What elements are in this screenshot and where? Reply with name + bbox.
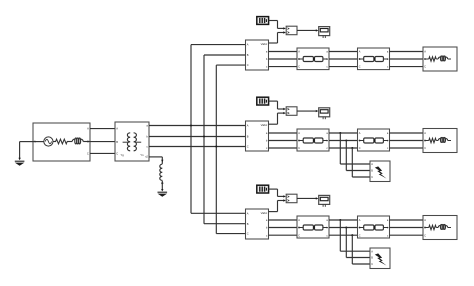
junction fault tap a feeder2 bbox=[339, 132, 341, 134]
wire line2a to line2b a bbox=[329, 132, 358, 134]
ground G1 bbox=[15, 161, 25, 166]
wire M1 b to line1a bbox=[269, 58, 298, 60]
wire M2 b to line2a bbox=[269, 140, 298, 142]
grounding reactor L1 bbox=[160, 164, 163, 180]
svg-text:C: C bbox=[424, 147, 426, 150]
svg-text:C: C bbox=[371, 263, 373, 266]
svg-text:C: C bbox=[424, 66, 426, 69]
three-phase transformer T1 (Yg-Yn) bbox=[115, 122, 149, 161]
wire M1 Vabc to sum S1 bbox=[269, 31, 286, 43]
junction bus c bbox=[215, 145, 217, 147]
wire source A to transformer A bbox=[90, 128, 115, 130]
wire fault tap b feeder3 bbox=[346, 228, 370, 258]
svg-text:Vabc: Vabc bbox=[261, 211, 268, 215]
distributed line block Line3a bbox=[297, 216, 329, 238]
junction reactor bottom bbox=[161, 182, 163, 184]
junction bus a bbox=[190, 124, 192, 126]
wire bus phase b vertical riser bbox=[203, 55, 205, 224]
wire M2 a to line2a bbox=[269, 132, 298, 134]
svg-text:A: A bbox=[116, 127, 118, 131]
sum block S3 bbox=[286, 194, 297, 203]
three-phase RLC load Load3 bbox=[423, 216, 457, 240]
wire line3b to load3 b bbox=[390, 227, 424, 229]
scope SC1 bbox=[319, 27, 330, 38]
junction bus b bbox=[203, 135, 205, 137]
wire source C to transformer C bbox=[90, 152, 115, 154]
wire line3a to line3b c bbox=[329, 234, 358, 236]
wire M3 a to line3a bbox=[269, 219, 298, 221]
distributed line block Line2b bbox=[358, 129, 390, 151]
junction fault tap c feeder3 bbox=[351, 234, 353, 236]
svg-text:A: A bbox=[247, 43, 249, 47]
sum block S2 bbox=[286, 107, 297, 116]
svg-text:B: B bbox=[247, 222, 249, 226]
wire sum S2 to scope SC2 bbox=[297, 110, 318, 112]
svg-text:C: C bbox=[424, 234, 426, 237]
svg-text:C: C bbox=[247, 145, 249, 149]
wire bus to feeder1 A bbox=[191, 44, 246, 46]
svg-text:C: C bbox=[247, 232, 249, 236]
junction fault tap b feeder2 bbox=[345, 139, 347, 141]
svg-text:C: C bbox=[359, 66, 361, 69]
wire bus to feeder1 C bbox=[216, 64, 245, 66]
wire M1 c to line1a bbox=[269, 66, 298, 68]
svg-text:C: C bbox=[298, 234, 300, 237]
three-phase source U1 bbox=[33, 123, 90, 161]
signal source block D2 bbox=[257, 97, 269, 105]
svg-text:C: C bbox=[371, 176, 373, 179]
three-phase fault F2 bbox=[370, 161, 390, 182]
three-phase fault F3 bbox=[370, 248, 390, 269]
wire line2b to load2 c bbox=[390, 147, 424, 149]
distributed line block Line2a bbox=[297, 129, 329, 151]
wire transformer n2 to reactor bbox=[149, 157, 164, 164]
svg-text:A: A bbox=[247, 211, 249, 215]
wire fault tap b feeder2 bbox=[346, 141, 370, 171]
wire D2 to sum S2 bbox=[269, 101, 286, 110]
svg-text:B: B bbox=[116, 140, 118, 144]
wire line3b to load3 c bbox=[390, 234, 424, 236]
svg-text:B: B bbox=[87, 140, 89, 144]
wire transformer b bus horizontal bbox=[149, 136, 246, 138]
wire sum S3 to scope SC3 bbox=[297, 197, 318, 199]
wire bus to feeder1 B bbox=[204, 54, 246, 56]
three-phase RLC load Load2 bbox=[423, 129, 457, 153]
svg-text:C: C bbox=[87, 152, 89, 156]
wire fault tap c feeder3 bbox=[352, 235, 370, 264]
wire line2a to line2b b bbox=[329, 140, 358, 142]
wire fault tap a feeder2 bbox=[340, 133, 370, 164]
wire bus to feeder3 C bbox=[216, 233, 245, 235]
scope SC2 bbox=[319, 108, 330, 119]
three-phase RLC load Load1 bbox=[423, 47, 457, 71]
wire fault tap c feeder2 bbox=[352, 148, 370, 177]
wire line2b to load2 a bbox=[390, 132, 424, 134]
wire source N to ground bbox=[18, 142, 33, 161]
wire D3 to sum S3 bbox=[269, 189, 286, 198]
junction fault tap a feeder3 bbox=[339, 219, 341, 221]
wire line3a to line3b b bbox=[329, 227, 358, 229]
wire M2 c to line2a bbox=[269, 147, 298, 149]
svg-text:C: C bbox=[359, 147, 361, 150]
wire line1b to load1 b bbox=[390, 58, 424, 60]
svg-text:C: C bbox=[247, 63, 249, 67]
wire source B to transformer B bbox=[90, 141, 115, 143]
distributed line block Line1b bbox=[358, 48, 390, 70]
wire line3a to line3b a bbox=[329, 219, 358, 221]
svg-text:C: C bbox=[359, 234, 361, 237]
wire M3 c to line3a bbox=[269, 234, 298, 236]
wire line1a to line1b c bbox=[329, 66, 358, 68]
V-I measurement M2 bbox=[246, 121, 269, 151]
signal source block D1 bbox=[257, 17, 269, 25]
wire bus phase a vertical riser bbox=[190, 45, 192, 214]
wire M1 a to line1a bbox=[269, 51, 298, 53]
wire bus to feeder3 B bbox=[204, 223, 246, 225]
svg-text:B: B bbox=[247, 135, 249, 139]
wire sum S1 to scope SC1 bbox=[297, 29, 318, 31]
svg-text:A: A bbox=[87, 127, 89, 131]
junction fault tap c feeder2 bbox=[351, 147, 353, 149]
distributed line block Line3b bbox=[358, 216, 390, 238]
svg-text:Vabc: Vabc bbox=[261, 42, 268, 46]
signal source block D3 bbox=[257, 185, 269, 193]
svg-text:C: C bbox=[298, 147, 300, 150]
wire line2a to line2b c bbox=[329, 147, 358, 149]
wire D1 to sum S1 bbox=[269, 21, 286, 30]
wire fault tap a feeder3 bbox=[340, 220, 370, 251]
wire line1a to line1b a bbox=[329, 51, 358, 53]
wire transformer a bus horizontal bbox=[149, 125, 246, 127]
sum block S1 bbox=[286, 26, 297, 35]
wire line2b to load2 b bbox=[390, 140, 424, 142]
svg-text:A: A bbox=[247, 124, 249, 128]
svg-text:C: C bbox=[116, 152, 118, 156]
wire M2 Vabc to sum S2 bbox=[269, 112, 286, 124]
wire transformer c bus horizontal bbox=[149, 146, 246, 148]
wire line1b to load1 c bbox=[390, 66, 424, 68]
wire M3 Vabc to sum S3 bbox=[269, 199, 286, 211]
wire M3 b to line3a bbox=[269, 227, 298, 229]
distributed line block Line1a bbox=[297, 48, 329, 70]
svg-text:Vabc: Vabc bbox=[261, 123, 268, 127]
wire line1b to load1 a bbox=[390, 51, 424, 53]
wire bus to feeder3 A bbox=[191, 212, 246, 214]
wire bus phase c vertical riser bbox=[215, 65, 217, 234]
svg-text:Yg: Yg bbox=[121, 153, 125, 157]
svg-text:Yn: Yn bbox=[140, 153, 144, 157]
scope SC3 bbox=[319, 195, 330, 206]
svg-text:N: N bbox=[34, 140, 36, 144]
svg-text:C: C bbox=[298, 66, 300, 69]
svg-text:B: B bbox=[247, 53, 249, 57]
wire line3b to load3 a bbox=[390, 219, 424, 221]
junction fault tap b feeder3 bbox=[345, 226, 347, 228]
ground G2 bbox=[158, 192, 168, 197]
V-I measurement M3 bbox=[246, 209, 269, 239]
V-I measurement M1 bbox=[246, 40, 269, 70]
wire reactor to ground bbox=[161, 181, 163, 192]
wire line1a to line1b b bbox=[329, 58, 358, 60]
